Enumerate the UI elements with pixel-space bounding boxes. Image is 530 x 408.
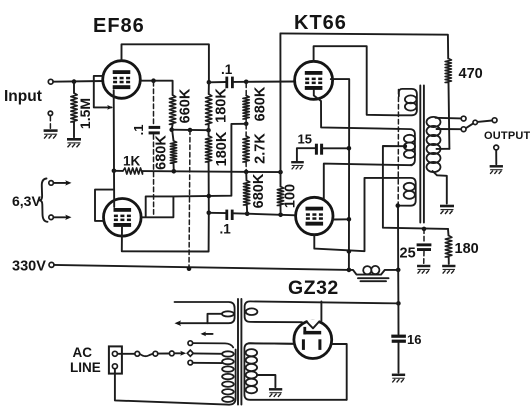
- winding secondary: [427, 117, 441, 127]
- terminal heater 2: [49, 215, 54, 220]
- winding 5V: [245, 301, 399, 322]
- arrow suppressor tie: [107, 105, 113, 110]
- ground secondary: [440, 206, 454, 214]
- wire B+ center dashed: [397, 90, 399, 204]
- svg-text:GZ32: GZ32: [288, 277, 339, 299]
- terminal 330V: [49, 262, 54, 267]
- wire GZ32 anode1: [249, 342, 294, 345]
- switch blade: [140, 354, 153, 357]
- wire grid rail KT66 V4: [247, 214, 296, 216]
- node subrail mid: [188, 128, 193, 133]
- switch contact 1: [135, 351, 140, 356]
- winding 6.3V: [175, 302, 235, 323]
- wire V3 screen: [331, 79, 349, 270]
- svg-text:KT66: KT66: [294, 12, 347, 34]
- wire cathode rail: [143, 171, 281, 172]
- wire to output: [478, 121, 493, 122]
- svg-text:15: 15: [298, 132, 312, 147]
- terminal tap B: [461, 127, 466, 132]
- wire V2 grid box: [95, 190, 114, 221]
- node B+ winding junction: [396, 203, 401, 208]
- node V4 right: [347, 217, 352, 222]
- ground 180: [442, 266, 455, 274]
- node V2 plate junction: [207, 211, 212, 216]
- svg-text:2.7K: 2.7K: [252, 133, 268, 164]
- svg-text:180K: 180K: [213, 88, 229, 123]
- node 16uF junction: [396, 301, 401, 306]
- plug pin bottom: [112, 364, 117, 369]
- node x349 plate wire: [347, 249, 352, 254]
- wire V3 cathode: [314, 90, 399, 129]
- node V4 grid: [278, 213, 283, 218]
- arrow 6.3V winding: [175, 320, 182, 326]
- svg-text:OUTPUT: OUTPUT: [484, 130, 530, 142]
- wire grid KT66 V3: [246, 81, 295, 83]
- tube KT66 V3: [295, 61, 333, 99]
- svg-text:EF86: EF86: [93, 15, 145, 37]
- terminal heater 1: [49, 181, 54, 186]
- arrow to tap: [175, 352, 182, 354]
- wire input to grid: [53, 80, 103, 83]
- wire V4 right: [333, 218, 349, 220]
- node 660K bottom: [169, 127, 174, 132]
- resistor 180K lower: [205, 136, 211, 162]
- node subrail right: [206, 128, 211, 133]
- node 2.7K bottom: [244, 170, 249, 175]
- capacitor C1 0.1 coupling: [209, 81, 226, 83]
- ground 1.5M: [67, 139, 81, 147]
- svg-text:330V: 330V: [12, 259, 46, 275]
- ground HT CT: [269, 389, 282, 397]
- ground 16: [392, 375, 405, 383]
- node B+ after choke: [396, 268, 401, 273]
- tube GZ32: [294, 321, 332, 359]
- brace 6.3V: [40, 179, 48, 222]
- node 1K left: [112, 169, 117, 174]
- winding primary top: [399, 89, 417, 115]
- wire AC return: [115, 369, 227, 405]
- resistor 180K upper: [206, 94, 212, 125]
- svg-text:180: 180: [455, 241, 479, 257]
- resistor 470: [445, 59, 451, 83]
- node rail right: [278, 170, 283, 175]
- wire NFB drop: [279, 33, 281, 172]
- terminal mains tap3: [188, 360, 193, 365]
- capacitor 25: [423, 229, 425, 243]
- wire B+ down: [397, 270, 399, 304]
- wire V1 screen right: [140, 81, 172, 95]
- resistor 660K: [169, 95, 175, 124]
- wire secondary top tap: [436, 117, 462, 120]
- node V1 screen junction: [151, 78, 156, 83]
- wire secondary bottom: [433, 171, 447, 204]
- wire suppressor box V1: [94, 76, 112, 108]
- winding HT: [244, 343, 346, 400]
- resistor 2.7K: [245, 125, 247, 137]
- ground 15 cap: [291, 162, 304, 169]
- wire GZ32 filament top: [320, 302, 322, 322]
- wire B+ drop dashed: [189, 130, 190, 269]
- terminal tap A: [461, 116, 466, 121]
- wire V4 bottom plate: [314, 178, 399, 251]
- wire V3 plate: [314, 46, 399, 115]
- winding cathode mid: [399, 129, 415, 165]
- node KT66 grid junction: [244, 80, 249, 85]
- tube EF86 V2: [104, 199, 142, 237]
- ground input jack: [44, 131, 58, 139]
- node paraphase tap: [244, 122, 249, 127]
- mains core: [237, 299, 239, 405]
- wire tap3: [193, 362, 222, 364]
- svg-text:25: 25: [400, 246, 416, 262]
- wire output gnd: [495, 150, 497, 164]
- svg-text:1K: 1K: [123, 154, 141, 169]
- tube EF86 V1: [103, 61, 141, 99]
- input jack ground terminal: [48, 111, 52, 115]
- choke core: [358, 277, 389, 279]
- wire sw2-sw3: [158, 353, 170, 355]
- terminal mains tap1: [188, 341, 193, 346]
- ground 25: [417, 266, 430, 274]
- resistor 680K a: [245, 83, 247, 96]
- node rail x349: [347, 268, 352, 273]
- node C2 right: [245, 211, 250, 216]
- wire 330V rail: [54, 265, 349, 270]
- wire tap2: [193, 352, 222, 354]
- ground output: [490, 166, 503, 174]
- svg-text:6,3V: 6,3V: [12, 193, 41, 209]
- wire 6.3V tap: [208, 314, 223, 323]
- svg-text:LINE: LINE: [70, 360, 101, 375]
- svg-text:680K: 680K: [251, 173, 267, 208]
- resistor 180: [447, 229, 450, 236]
- terminal output jack: [494, 145, 499, 150]
- switch contact 3: [169, 351, 174, 356]
- svg-text:.1: .1: [131, 125, 146, 136]
- svg-text:.1: .1: [220, 222, 232, 237]
- wire V2 cathode up: [113, 171, 115, 207]
- transformer core: [419, 86, 421, 223]
- wire top NFB rail: [280, 33, 448, 58]
- terminal output top: [492, 118, 497, 123]
- wire heater 2: [53, 216, 67, 218]
- resistor 680K b: [170, 141, 176, 163]
- wire heater 1: [53, 182, 67, 184]
- wire cathode center tap: [383, 146, 448, 229]
- svg-text:680K: 680K: [252, 86, 268, 121]
- tap2 diamond: [187, 350, 193, 356]
- node cathode line 15: [347, 146, 352, 151]
- svg-text:470: 470: [459, 66, 483, 82]
- plug pin top: [112, 351, 117, 356]
- svg-text:100: 100: [282, 184, 298, 208]
- svg-text:180K: 180K: [214, 131, 230, 166]
- capacitor 15: [297, 148, 315, 161]
- svg-text:660K: 660K: [177, 88, 193, 123]
- switch contact 2: [153, 351, 158, 356]
- svg-text:1.5M: 1.5M: [77, 98, 93, 129]
- wire HT center tap: [257, 375, 275, 387]
- wire V1 cathode down: [113, 90, 115, 171]
- winding primary bottom: [398, 178, 416, 206]
- svg-text:AC: AC: [73, 345, 93, 360]
- terminal switch pole: [473, 120, 477, 124]
- tube KT66 V4: [296, 197, 333, 234]
- wire V4 top cathode: [324, 164, 412, 199]
- resistor 680K c: [245, 172, 247, 181]
- capacitor C3 0.1 vertical: [153, 82, 155, 126]
- wire V1 plate top: [122, 44, 209, 82]
- wire jack dash: [49, 116, 51, 128]
- wire V2 grid right loop: [142, 196, 174, 217]
- winding mains primary: [193, 343, 234, 347]
- node V1 plate junction: [207, 80, 212, 85]
- svg-text:16: 16: [407, 332, 421, 347]
- wire secondary tap2: [437, 128, 462, 130]
- input terminal: [48, 79, 53, 84]
- wire GZ32 anode2: [332, 344, 347, 400]
- node bias junction: [422, 227, 427, 232]
- capacitor C2 0.1 coupling: [209, 212, 226, 214]
- switch arm: [466, 124, 473, 129]
- wire pin to switch: [117, 353, 134, 355]
- resistor 1K: [114, 170, 123, 172]
- wire secondary NFB tap: [437, 148, 450, 150]
- capacitor 16: [397, 303, 399, 334]
- resistor 100: [280, 172, 282, 186]
- arrow heater link: [203, 333, 213, 335]
- svg-text:.1: .1: [221, 62, 233, 77]
- wire B+ sub rail: [172, 129, 209, 132]
- node V2 plate col top: [207, 194, 212, 199]
- node input junction: [72, 79, 77, 84]
- node B+ drop bottom: [187, 266, 192, 271]
- choke: [349, 270, 398, 275]
- node 680Kb bottom: [172, 169, 177, 174]
- plug AC: [109, 346, 122, 373]
- wire V2 plate: [122, 213, 209, 252]
- svg-text:Input: Input: [4, 88, 42, 105]
- wire paraphase link: [173, 124, 246, 197]
- svg-text:680K: 680K: [153, 135, 169, 170]
- resistor 1.5M: [73, 82, 75, 93]
